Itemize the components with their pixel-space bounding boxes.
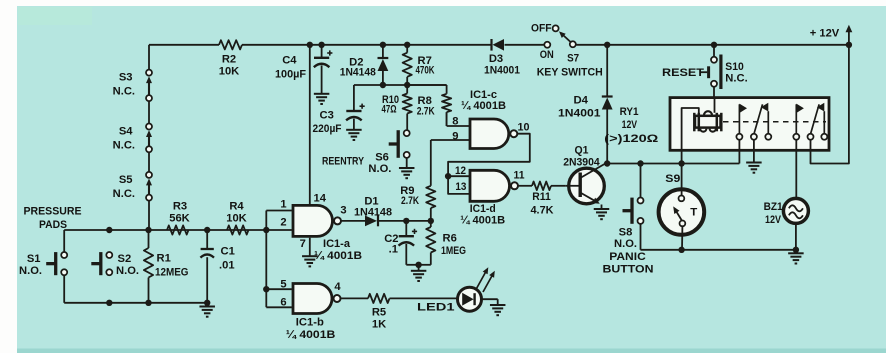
svg-text:5: 5 xyxy=(280,278,286,290)
diode D1 1N4148 xyxy=(365,216,377,227)
svg-text:REENTRY: REENTRY xyxy=(322,156,364,168)
svg-text:N.O.: N.O. xyxy=(368,163,391,175)
op-gate IC1-a 1/4 4001B xyxy=(293,205,333,236)
node Q1 collector/D4 xyxy=(604,160,610,166)
svg-text:N.C.: N.C. xyxy=(113,188,135,200)
switch S2 N.O. xyxy=(99,252,102,275)
svg-text:IC1-a: IC1-a xyxy=(323,238,351,250)
svg-text:PADS: PADS xyxy=(39,219,67,231)
wire IC1-b output to R5 xyxy=(341,297,368,299)
ground under C2/R6 xyxy=(418,265,420,271)
svg-text:1N4148: 1N4148 xyxy=(340,66,376,78)
svg-text:OFF: OFF xyxy=(531,23,552,35)
node rail-S10 xyxy=(711,42,717,48)
svg-text:220µF: 220µF xyxy=(313,123,342,135)
svg-text:12MEG: 12MEG xyxy=(155,267,189,279)
wire sensor-chain drop from rail xyxy=(148,45,150,70)
capacitor C3 220uF xyxy=(346,110,361,112)
svg-text:ON: ON xyxy=(540,49,554,61)
node S8 top xyxy=(637,160,643,166)
node BZ1 ground xyxy=(793,247,799,253)
svg-text:N.O.: N.O. xyxy=(614,238,637,250)
+12V supply arrow xyxy=(848,31,850,45)
resistor R10 47ohm xyxy=(403,94,412,114)
switch S10 RESET N.C. xyxy=(701,71,707,73)
relay coil xyxy=(695,116,721,128)
node R1 top xyxy=(145,227,151,233)
node R1 bottom xyxy=(145,300,151,306)
switch S8 N.O. panic button xyxy=(630,198,633,224)
svg-text:.1: .1 xyxy=(389,244,398,256)
svg-text:2N3904: 2N3904 xyxy=(563,156,600,168)
svg-text:2.7K: 2.7K xyxy=(401,195,419,207)
svg-text:KEY SWITCH: KEY SWITCH xyxy=(537,67,603,79)
wire D1 to node xyxy=(379,220,431,222)
svg-text:S2: S2 xyxy=(118,253,132,265)
svg-text:100µF: 100µF xyxy=(275,69,306,81)
svg-text:N.O.: N.O. xyxy=(19,265,42,277)
resistor R6 xyxy=(430,221,432,227)
resistor R2 xyxy=(219,40,242,49)
node S9 bottom xyxy=(678,247,684,253)
svg-text:S3: S3 xyxy=(119,72,133,84)
svg-text:LED1: LED1 xyxy=(417,301,455,313)
switch S3 N.C. xyxy=(148,80,150,96)
wire pin9 to R9 xyxy=(431,139,471,141)
svg-text:(>)120Ω: (>)120Ω xyxy=(604,133,658,145)
svg-text:10K: 10K xyxy=(219,66,240,78)
switch S4 N.C. xyxy=(148,134,150,147)
svg-text:S5: S5 xyxy=(119,174,133,186)
ground IC1-a pin7 xyxy=(302,255,318,257)
relay contacts pole 2 xyxy=(793,134,799,140)
node R7 bottom xyxy=(404,82,410,88)
svg-text:12V: 12V xyxy=(622,119,638,131)
svg-text:N.C.: N.C. xyxy=(113,140,135,152)
wire IC1-a inputs xyxy=(265,211,267,308)
relay dashed armature line xyxy=(723,121,826,123)
resistor R4 xyxy=(227,225,249,234)
svg-text:.01: .01 xyxy=(219,259,235,271)
relay RY1 box xyxy=(670,98,829,151)
node S2 bottom xyxy=(106,300,112,306)
svg-text:S6: S6 xyxy=(375,152,389,164)
ground under relay xyxy=(746,162,762,164)
node C2 top xyxy=(403,218,409,224)
node rail-D4 xyxy=(604,42,610,48)
svg-text:N.C.: N.C. xyxy=(725,73,747,85)
svg-text:Q1: Q1 xyxy=(575,144,589,156)
svg-text:12: 12 xyxy=(455,165,466,177)
ground under S6 xyxy=(406,158,408,168)
node gate-A input xyxy=(263,227,269,233)
svg-text:¼ 4001B: ¼ 4001B xyxy=(314,250,362,262)
svg-text:S9: S9 xyxy=(665,173,680,185)
svg-text:10: 10 xyxy=(518,121,530,133)
svg-text:47Ω: 47Ω xyxy=(382,103,397,115)
ground under C3 xyxy=(346,129,362,131)
resistor R9 xyxy=(430,208,432,221)
wire pole2-A to buzzer xyxy=(795,140,797,199)
svg-text:R2: R2 xyxy=(222,54,236,66)
svg-text:2: 2 xyxy=(280,217,286,229)
svg-text:R4: R4 xyxy=(229,201,244,213)
svg-text:D3: D3 xyxy=(489,53,503,65)
svg-text:IC1-b: IC1-b xyxy=(296,317,324,329)
resistor R1 xyxy=(148,230,150,248)
wire coil right to S10 xyxy=(714,98,716,113)
node S2 top xyxy=(106,227,112,233)
svg-text:1N4148: 1N4148 xyxy=(354,206,392,218)
wire IC1-a output xyxy=(341,220,365,222)
ground under BZ1 xyxy=(795,250,797,254)
svg-text:N.C.: N.C. xyxy=(113,86,135,98)
wire top supply rail xyxy=(149,44,219,46)
svg-text:3: 3 xyxy=(340,205,346,217)
node +12V corner xyxy=(846,42,852,48)
node pins 12/13 tie xyxy=(445,173,451,179)
op-gate IC1-d 1/4 4001B xyxy=(470,170,509,201)
wire S3-S4 xyxy=(148,101,150,124)
svg-text:¼ 4001B: ¼ 4001B xyxy=(460,214,505,226)
wire pin7 to ground xyxy=(309,238,311,257)
svg-text:R6: R6 xyxy=(443,232,457,244)
capacitor C2 xyxy=(405,221,407,236)
switch S1 N.O. xyxy=(54,252,57,275)
wire IC1-b inputs xyxy=(266,288,292,290)
svg-text:S7: S7 xyxy=(567,53,579,65)
svg-text:2.7K: 2.7K xyxy=(417,105,435,117)
svg-text:S4: S4 xyxy=(119,126,133,138)
svg-text:1K: 1K xyxy=(372,318,386,330)
wire pole1-A to collector bus xyxy=(738,140,740,164)
svg-text:RY1: RY1 xyxy=(620,106,639,118)
svg-text:S1: S1 xyxy=(27,253,41,265)
diode D4 1N4001 xyxy=(606,45,608,97)
wire D2/C3/R7 node bus xyxy=(354,84,447,86)
svg-text:R3: R3 xyxy=(173,201,187,213)
wire R5 to LED1 xyxy=(390,297,458,299)
wire S9 to bottom bus xyxy=(681,226,683,250)
svg-text:10K: 10K xyxy=(226,212,247,224)
resistor R5 xyxy=(368,294,390,303)
wire pin8 to R8 xyxy=(447,125,471,127)
capacitor C1 xyxy=(206,230,208,249)
node C1 ground xyxy=(204,300,210,306)
svg-text:PRESSURE: PRESSURE xyxy=(24,206,82,218)
capacitor C4 100uF xyxy=(321,45,323,58)
node S9/coil xyxy=(678,160,684,166)
svg-text:470K: 470K xyxy=(416,64,435,76)
wire Q1 collector bus xyxy=(607,163,739,165)
wire pad bus bottom xyxy=(63,275,65,303)
node R9/R6 top xyxy=(428,218,434,224)
svg-text:14: 14 xyxy=(314,193,327,205)
wire pad bus top xyxy=(64,229,267,231)
buzzer BZ1 12V xyxy=(783,198,808,223)
switch S5 N.C. xyxy=(148,182,150,195)
wire BZ1 to bottom bus xyxy=(795,223,797,249)
wire feedback pin10 to pins12/13 xyxy=(448,134,530,194)
node rail-pin14 xyxy=(307,42,313,48)
svg-text:1MEG: 1MEG xyxy=(441,245,466,257)
svg-text:IC1-d: IC1-d xyxy=(470,203,496,215)
wire S5 to pad bus xyxy=(148,200,150,230)
svg-text:C4: C4 xyxy=(282,55,297,67)
svg-text:6: 6 xyxy=(280,296,286,308)
resistor R8 2.7K xyxy=(407,84,446,86)
wire pole1-common to ground xyxy=(753,140,755,163)
ground under Q1 emitter xyxy=(594,208,610,210)
resistor R11 4.7K xyxy=(517,185,532,187)
bottom edge strip xyxy=(17,349,886,353)
svg-text:BZ1: BZ1 xyxy=(764,201,783,213)
transistor Q1 2N3904 xyxy=(569,168,605,204)
ground under C4 xyxy=(314,93,330,95)
op-gate IC1-c 1/4 4001B xyxy=(470,119,509,149)
switch S6 REENTRY N.O. xyxy=(397,130,400,158)
svg-text:R1: R1 xyxy=(157,253,171,265)
svg-text:C3: C3 xyxy=(319,110,333,122)
wire pin14 to rail xyxy=(309,45,311,204)
svg-text:RESET: RESET xyxy=(662,67,704,79)
svg-text:13: 13 xyxy=(455,181,466,193)
node C1 top xyxy=(204,227,210,233)
ground under C1 xyxy=(206,303,208,307)
switch S9 timer xyxy=(659,189,705,235)
wire pole2-common to +12V xyxy=(811,45,849,164)
ground under LED1 xyxy=(490,304,506,306)
svg-text:D4: D4 xyxy=(574,95,589,107)
diode D2 1N4148 xyxy=(382,45,384,58)
relay contacts pole 1 xyxy=(736,134,742,140)
svg-text:12V: 12V xyxy=(765,214,781,226)
scan tint top-left xyxy=(18,7,92,25)
svg-text:+ 12V: + 12V xyxy=(810,28,840,40)
wire S4-S5 xyxy=(148,152,150,172)
svg-text:11: 11 xyxy=(514,170,525,182)
wire LED1 to ground xyxy=(481,298,497,300)
svg-text:4: 4 xyxy=(334,281,341,293)
svg-text:56K: 56K xyxy=(169,212,190,224)
svg-text:7: 7 xyxy=(300,238,306,250)
node C2/R6 ground xyxy=(415,262,421,268)
svg-text:4.7K: 4.7K xyxy=(531,204,554,216)
svg-text:¼ 4001B: ¼ 4001B xyxy=(286,329,336,341)
diode D3 1N4001 xyxy=(490,39,492,51)
svg-text:1: 1 xyxy=(280,199,286,211)
wire to pin 12 xyxy=(448,175,470,177)
svg-text:¼ 4001B: ¼ 4001B xyxy=(461,100,506,112)
LED LED1 xyxy=(458,287,482,311)
key switch S7 xyxy=(553,25,559,31)
wire coil left to S9 node xyxy=(682,108,699,164)
svg-text:1N4001: 1N4001 xyxy=(558,108,601,120)
svg-text:S10: S10 xyxy=(725,61,744,73)
op-gate IC1-b 1/4 4001B xyxy=(293,284,332,314)
svg-text:R5: R5 xyxy=(372,306,386,318)
resistor R3 xyxy=(167,225,189,234)
node gate-B input xyxy=(263,286,269,292)
svg-text:1N4001: 1N4001 xyxy=(484,65,520,77)
svg-text:N.O.: N.O. xyxy=(116,265,139,277)
node D2 bottom xyxy=(380,82,386,88)
svg-text:PANIC: PANIC xyxy=(609,251,646,263)
resistor R7 470K xyxy=(406,45,408,53)
node rail-C4 xyxy=(318,42,324,48)
node rail-D2 xyxy=(380,42,386,48)
svg-text:BUTTON: BUTTON xyxy=(603,264,654,276)
svg-text:T: T xyxy=(690,206,697,218)
svg-text:R11: R11 xyxy=(532,191,551,203)
svg-text:C1: C1 xyxy=(221,246,235,258)
svg-text:S8: S8 xyxy=(619,226,633,238)
node rail-R7 xyxy=(404,42,410,48)
